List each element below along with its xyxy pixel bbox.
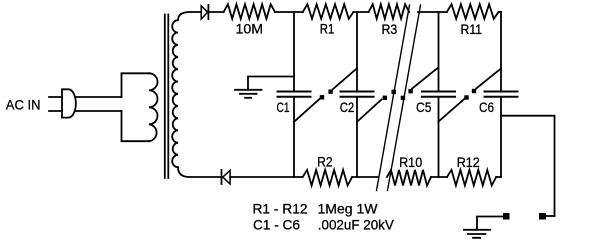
break lines (omitted stages) [377, 5, 421, 191]
capacitor C6 [485, 92, 518, 97]
resistor R3 [369, 4, 410, 19]
wire node A4 vertical [438, 12, 440, 177]
wire R11 to node A5 [499, 11, 502, 13]
svg-text:10M: 10M [236, 20, 264, 36]
resistor R11 [447, 4, 499, 19]
terminal output right [539, 213, 555, 220]
svg-text:C2: C2 [340, 99, 355, 115]
wire R12 to node A5 bottom [496, 176, 501, 178]
spark gap G2 [357, 68, 437, 122]
resistor R10 [387, 170, 431, 186]
diode D1 (top) [201, 5, 208, 19]
svg-text:C6: C6 [479, 99, 494, 115]
ground (charging) [235, 77, 294, 98]
resistor R12 [447, 170, 496, 186]
node dot on break line 1 [392, 90, 396, 94]
transformer T1 core [165, 15, 169, 179]
terminal output left [477, 213, 510, 230]
ground (output) [464, 230, 490, 238]
svg-text:AC IN: AC IN [6, 97, 41, 113]
wire plug to primary [75, 73, 149, 141]
wire node A1 vertical [293, 12, 295, 177]
spark gap G3 [439, 69, 502, 122]
svg-text:R11: R11 [461, 21, 483, 37]
node dot on break line 2 [401, 96, 405, 100]
svg-text:C1: C1 [277, 99, 290, 115]
svg-text:R12: R12 [457, 154, 480, 170]
resistor R1 [303, 4, 354, 19]
svg-text:.002uF 20kV: .002uF 20kV [318, 218, 394, 233]
wire R1 to R3 [353, 11, 368, 13]
capacitor C5 [422, 92, 455, 97]
diode D2 (bottom) [222, 170, 231, 184]
svg-text:1Meg 1W: 1Meg 1W [318, 202, 378, 217]
svg-text:C1 - C6: C1 - C6 [253, 218, 300, 233]
wire node A2 vertical [356, 12, 358, 177]
svg-text:R1 - R12: R1 - R12 [253, 202, 308, 217]
resistor R2 [303, 170, 353, 186]
transformer T1 secondary [172, 12, 221, 177]
transformer T1 primary [149, 73, 158, 141]
svg-text:R3: R3 [382, 21, 398, 37]
wire node A5 vertical [500, 12, 502, 177]
svg-text:C5: C5 [416, 99, 432, 115]
plug P1 [49, 89, 76, 117]
svg-text:R10: R10 [399, 154, 422, 170]
wire R2 to break [352, 176, 377, 178]
svg-text:R2: R2 [317, 154, 333, 170]
wire R10 to R12 [431, 176, 447, 178]
capacitor C2 [341, 92, 374, 97]
wire diode to 10M [208, 11, 223, 13]
spark gap G1 [294, 68, 357, 122]
wire break to R11 [418, 11, 447, 13]
resistor 10M [224, 4, 275, 19]
wire 10M to node A1 [275, 11, 303, 13]
svg-text:R1: R1 [320, 21, 335, 37]
wire output tap [501, 116, 555, 216]
wire bottom rail left [230, 176, 303, 178]
capacitor C1 [278, 92, 311, 97]
